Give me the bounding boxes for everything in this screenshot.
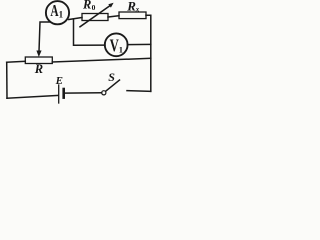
svg-text:1: 1 [59, 10, 64, 20]
svg-text:0: 0 [92, 3, 96, 12]
arrow through R0 [80, 5, 111, 27]
wire left rail top to R [7, 60, 26, 63]
rheostat R0 box [82, 14, 108, 21]
switch S pivot contact [102, 91, 106, 95]
wire from A1 left terminal down to slider [39, 22, 50, 52]
wire R0 to Rx [108, 16, 119, 17]
wire battery to switch [65, 92, 102, 94]
wire R right terminal to right rail [52, 58, 151, 62]
svg-text:x: x [135, 6, 140, 14]
battery E long plate [58, 85, 60, 103]
svg-text:R: R [82, 0, 91, 11]
voltmeter V1 [105, 33, 128, 56]
battery E short plate [62, 89, 65, 98]
wire A1 to R0 [69, 18, 82, 20]
svg-text:V: V [110, 35, 119, 55]
wire switch to bottom-right corner [127, 90, 151, 93]
wire Rx to top-right corner and right rail down [146, 15, 151, 91]
svg-text:R: R [34, 62, 43, 76]
svg-text:R: R [126, 0, 136, 13]
slider arrowhead onto R [36, 51, 41, 58]
wire junction between A1 and R0 down and right to V1 [74, 19, 105, 45]
svg-text:1: 1 [119, 45, 123, 55]
wire V1 to right rail [128, 43, 151, 45]
svg-text:E: E [55, 75, 63, 87]
resistor Rx box [119, 12, 146, 19]
rheostat R box [25, 57, 52, 64]
switch S lever [106, 80, 120, 91]
ammeter A1 [46, 1, 69, 24]
wire left rail [6, 62, 8, 98]
svg-text:S: S [108, 70, 115, 84]
wire bottom-left to battery [7, 95, 58, 98]
